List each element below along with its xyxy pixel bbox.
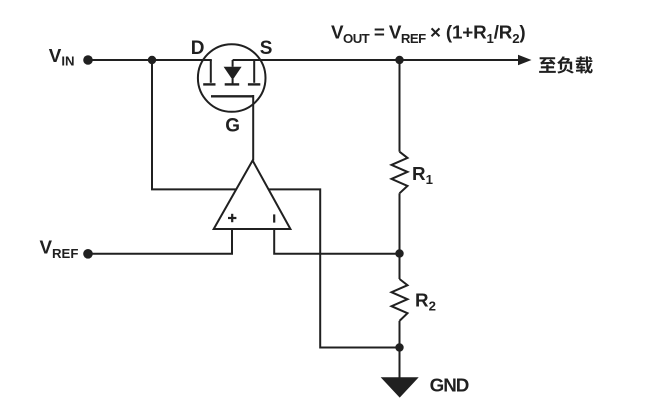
svg-text:G: G — [225, 116, 240, 137]
transistor drain contact bar — [210, 60, 212, 83]
svg-text:GND: GND — [430, 375, 469, 396]
svg-text:R2: R2 — [415, 290, 436, 314]
transistor source contact bar — [253, 60, 255, 83]
op-amp minus input marker — [273, 214, 275, 222]
resistor R2 — [392, 279, 408, 321]
svg-text:VREF: VREF — [40, 237, 79, 262]
node VREF terminal — [83, 249, 93, 259]
label to-load (Chinese: zhi fu zai) — [539, 56, 593, 73]
wire R1 to feedback node — [399, 193, 401, 253]
transistor channel segment left — [203, 83, 215, 85]
wire MOSFET source to output arrow — [233, 59, 519, 61]
ground symbol — [381, 377, 419, 397]
transistor channel segment middle — [225, 83, 240, 85]
transistor PMOS pass FET body circle — [198, 44, 266, 112]
node VIN terminal — [83, 55, 93, 65]
wire op-amp negative rail to ground rail — [269, 189, 400, 347]
wire feedback node to R2 — [399, 254, 401, 280]
op-amp plus input marker horizontal — [228, 217, 236, 219]
wire R2 to ground node — [399, 321, 401, 348]
svg-text:VOUT = VREF: VOUT = VREF — [331, 21, 426, 46]
node ground junction — [395, 343, 403, 351]
node feedback junction — [395, 249, 403, 257]
wire VOUT node down to R1 — [399, 60, 401, 152]
transistor body arrow tail — [232, 79, 234, 84]
svg-text:× (1+R1/R2): × (1+R1/R2) — [430, 21, 526, 46]
svg-text:VIN: VIN — [49, 45, 75, 69]
transistor body arrow stem — [232, 60, 234, 67]
node VOUT junction — [395, 56, 403, 64]
svg-text:R1: R1 — [412, 163, 433, 187]
arrowhead to load — [518, 55, 532, 65]
svg-text:D: D — [191, 38, 205, 59]
wire VREF to non-inverting input — [88, 229, 232, 254]
op-amp plus input marker vertical — [231, 214, 233, 222]
node supply tap junction — [148, 56, 156, 64]
transistor channel segment right — [248, 83, 260, 85]
svg-text:S: S — [260, 38, 273, 59]
op-amp error amplifier triangle — [214, 161, 291, 230]
wire supply tap down to op-amp positive rail — [152, 60, 236, 189]
wire inverting input to feedback node — [274, 229, 399, 254]
wire gate to op-amp output — [252, 95, 254, 161]
transistor gate plate — [211, 95, 253, 97]
resistor R1 — [392, 152, 408, 194]
transistor body arrow head — [224, 67, 242, 80]
wire VIN to MOSFET drain — [88, 59, 212, 61]
wire ground node to ground symbol — [399, 348, 401, 378]
